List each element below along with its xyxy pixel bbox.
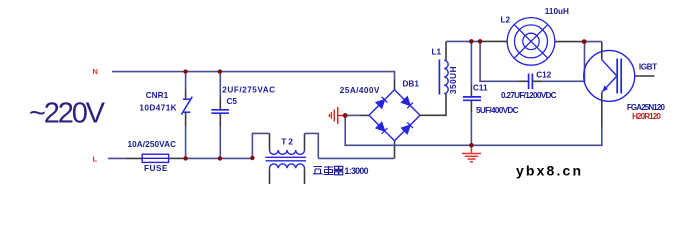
svg-text:IGBT: IGBT	[639, 62, 657, 71]
svg-text:2UF/275VAC: 2UF/275VAC	[222, 86, 275, 95]
svg-text:C11: C11	[473, 84, 488, 93]
svg-text:FUSE: FUSE	[144, 164, 168, 173]
bridge DB1 diode BR	[402, 122, 413, 133]
wire bridge right pin to L1	[420, 94, 446, 116]
wire L2 right to IGBT	[555, 41, 584, 43]
bridge DB1 diamond	[369, 90, 420, 141]
svg-text:L2: L2	[501, 15, 511, 24]
wire N rail	[112, 72, 395, 80]
svg-text:350UH: 350UH	[449, 66, 458, 94]
wire N rail pin into bridge top	[394, 80, 396, 90]
transistor Q1 IGBT	[584, 50, 635, 101]
svg-text:L1: L1	[432, 48, 442, 57]
capacitor C12 branch	[480, 41, 519, 81]
svg-text:DB1: DB1	[403, 80, 420, 89]
svg-text:5UF/400VDC: 5UF/400VDC	[476, 106, 519, 115]
transformer T2 primary winding	[270, 150, 305, 154]
capacitor C11	[470, 41, 472, 85]
svg-text:10A/250VAC: 10A/250VAC	[128, 140, 177, 149]
wire fuse left pin	[126, 157, 142, 159]
wire flag to bridge left	[345, 114, 360, 116]
svg-text:C12: C12	[536, 70, 551, 79]
svg-text:~220V: ~220V	[29, 98, 106, 130]
bridge DB1 diode BL	[376, 122, 387, 133]
svg-text:10D471K: 10D471K	[139, 103, 176, 112]
svg-text:0.27UF/1200VDC: 0.27UF/1200VDC	[501, 91, 557, 100]
transformer T2 secondary leads	[269, 168, 271, 184]
ground earth	[462, 145, 481, 162]
wire top rail	[446, 40, 480, 42]
svg-text:110uH: 110uH	[545, 7, 569, 16]
wire bridge bottom riser	[394, 141, 396, 159]
bridge DB1 diode TL	[376, 97, 387, 108]
svg-text:L: L	[93, 155, 98, 164]
svg-text:1:3000: 1:3000	[345, 166, 369, 176]
svg-text:C5: C5	[227, 97, 238, 106]
svg-text:N: N	[93, 67, 98, 76]
fuse FUSE body	[142, 154, 168, 162]
svg-text:ybx8.cn: ybx8.cn	[516, 162, 581, 178]
wire L rail left	[108, 157, 126, 159]
power port PWR flag	[329, 107, 345, 124]
varistor CNR1	[185, 72, 187, 89]
coil L2	[507, 18, 555, 66]
svg-text:CNR1: CNR1	[146, 91, 169, 100]
wire L rail middle	[183, 157, 252, 159]
inductor L1	[438, 60, 440, 95]
svg-text:25A/400V: 25A/400V	[340, 86, 380, 95]
wire gate stub	[635, 75, 655, 77]
wire negative bus	[345, 116, 602, 146]
transformer T2 core	[266, 156, 307, 158]
transformer T2 primary route	[252, 133, 269, 158]
bridge DB1 diode TR	[402, 97, 413, 108]
wire fuse right pin	[169, 157, 183, 159]
svg-text:FGA25N120: FGA25N120	[627, 103, 666, 112]
wire L rail right of T2	[318, 157, 394, 159]
transformer T2 secondary winding	[270, 164, 305, 168]
svg-text:H20R120: H20R120	[632, 112, 661, 121]
capacitor C5	[219, 72, 221, 97]
label CJK hugan qi	[313, 166, 343, 175]
svg-text:T2: T2	[281, 136, 293, 146]
